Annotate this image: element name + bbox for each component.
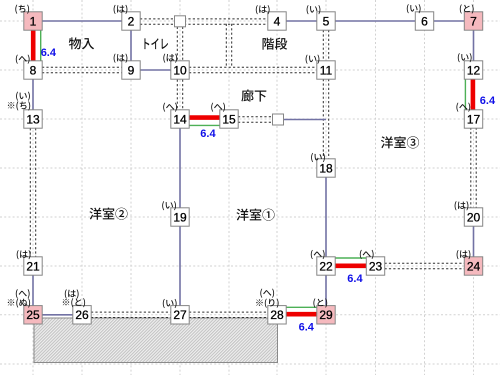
svg-text:20: 20 [467, 210, 481, 224]
svg-text:29: 29 [319, 308, 333, 322]
svg-text:1: 1 [30, 14, 37, 28]
svg-text:10: 10 [173, 63, 187, 77]
svg-text:7: 7 [470, 14, 477, 28]
svg-text:6.4: 6.4 [200, 128, 216, 140]
svg-text:23: 23 [369, 259, 383, 273]
svg-text:19: 19 [173, 210, 187, 224]
svg-text:24: 24 [467, 259, 481, 273]
svg-text:15: 15 [222, 112, 236, 126]
svg-text:22: 22 [319, 259, 333, 273]
svg-text:17: 17 [467, 112, 481, 126]
svg-text:6.4: 6.4 [480, 95, 496, 107]
svg-text:26: 26 [75, 308, 89, 322]
svg-text:11: 11 [320, 63, 333, 77]
svg-text:27: 27 [173, 308, 187, 322]
svg-text:2: 2 [128, 14, 135, 28]
svg-text:6: 6 [421, 14, 428, 28]
svg-text:6.4: 6.4 [299, 322, 315, 334]
svg-text:6.4: 6.4 [41, 47, 57, 59]
svg-text:14: 14 [173, 112, 187, 126]
svg-text:21: 21 [26, 259, 40, 273]
svg-text:18: 18 [319, 161, 333, 175]
svg-text:13: 13 [26, 112, 40, 126]
svg-text:8: 8 [30, 63, 37, 77]
svg-text:5: 5 [323, 14, 330, 28]
svg-text:12: 12 [467, 63, 481, 77]
svg-text:6.4: 6.4 [347, 273, 363, 285]
svg-text:28: 28 [270, 308, 284, 322]
svg-text:9: 9 [128, 63, 135, 77]
svg-text:4: 4 [274, 14, 281, 28]
svg-text:25: 25 [26, 308, 40, 322]
